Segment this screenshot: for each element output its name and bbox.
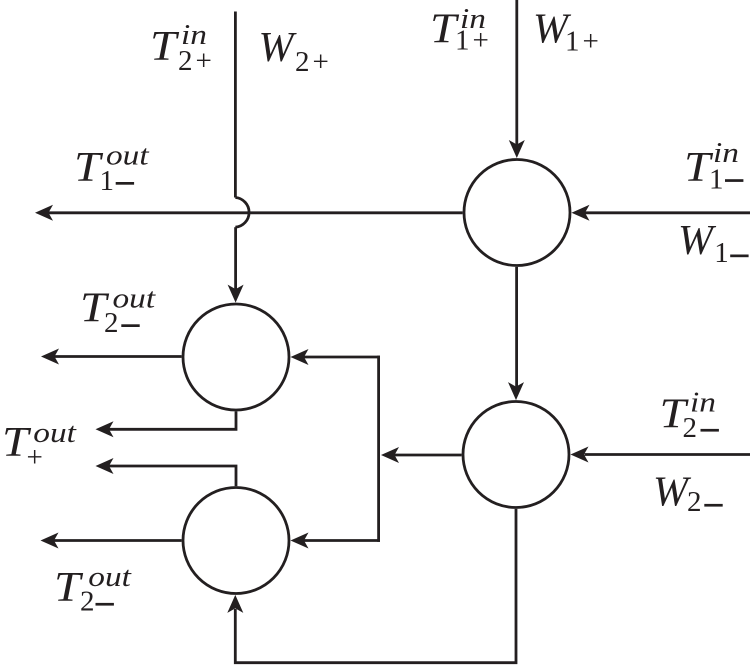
svg-text:2: 2: [80, 586, 95, 618]
svg-text:1: 1: [714, 237, 729, 269]
svg-text:2: 2: [683, 412, 698, 444]
svg-text:2: 2: [687, 486, 702, 518]
svg-text:T: T: [150, 23, 180, 70]
svg-text:+: +: [27, 442, 43, 474]
svg-text:W: W: [259, 25, 298, 71]
svg-text:2+: 2+: [178, 45, 215, 77]
svg-text:out: out: [88, 560, 132, 592]
svg-text:W: W: [678, 218, 717, 264]
svg-text:1: 1: [709, 164, 724, 196]
svg-text:2+: 2+: [295, 46, 332, 78]
svg-text:out: out: [113, 282, 157, 314]
svg-text:1: 1: [100, 165, 115, 197]
svg-text:1+: 1+: [565, 26, 602, 58]
svg-text:1+: 1+: [455, 24, 492, 56]
svg-text:2: 2: [104, 307, 119, 339]
